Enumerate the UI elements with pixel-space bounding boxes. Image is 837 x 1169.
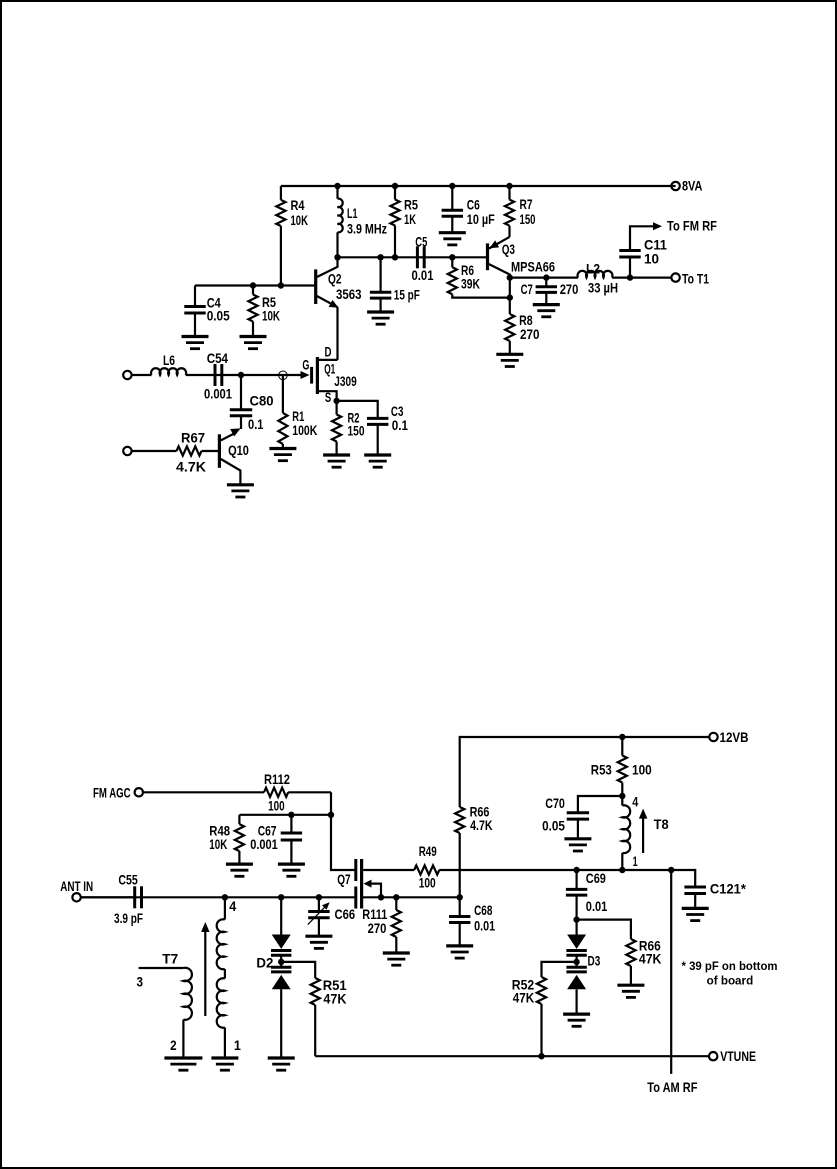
svg-text:100: 100 xyxy=(632,762,652,778)
junction node-L1 xyxy=(334,254,340,260)
junction drain-C69 xyxy=(573,867,579,873)
junction ant-C66 xyxy=(316,894,322,900)
svg-text:T7: T7 xyxy=(162,951,178,967)
junction ant-T7 xyxy=(222,894,228,900)
junction rail-L1 xyxy=(334,183,340,189)
svg-text:1: 1 xyxy=(633,853,638,869)
svg-text:C68: C68 xyxy=(474,902,492,918)
svg-text:10K: 10K xyxy=(209,836,227,852)
svg-text:L6: L6 xyxy=(163,352,175,368)
svg-text:Q7: Q7 xyxy=(337,871,351,887)
junction rail-R5 xyxy=(392,183,398,189)
svg-text:G: G xyxy=(302,357,309,373)
junction source-R111 xyxy=(393,894,399,900)
ground C3 xyxy=(364,455,391,467)
junction drain-AMRF xyxy=(668,867,674,873)
svg-text:33 µH: 33 µH xyxy=(588,280,618,296)
wire R1 drop xyxy=(282,375,284,413)
svg-text:4.7K: 4.7K xyxy=(176,459,206,475)
svg-text:R4: R4 xyxy=(291,197,305,213)
wire collector to R8 node xyxy=(509,278,511,298)
net label ANT IN xyxy=(60,878,93,894)
svg-text:L1: L1 xyxy=(347,205,358,221)
junction gate-C80 xyxy=(238,372,244,378)
junction VTUNE-R52 xyxy=(538,1053,544,1059)
resistor R112 xyxy=(143,771,331,814)
junction output-C7 xyxy=(543,274,549,280)
wire D3 to ground xyxy=(575,989,577,1014)
transformer T8 winding xyxy=(622,794,638,870)
svg-text:8VA: 8VA xyxy=(682,178,702,194)
ground C121 xyxy=(682,908,709,920)
wire gate2 bias line xyxy=(239,814,331,816)
transformer T7 core arrow xyxy=(162,922,209,1016)
junction base-R6 xyxy=(449,254,455,260)
terminal RF input xyxy=(123,371,131,379)
svg-text:* 39 pF on bottom: * 39 pF on bottom xyxy=(682,959,778,973)
svg-text:150: 150 xyxy=(520,211,536,227)
resistor R5 (1K) xyxy=(390,186,418,257)
capacitor C6 xyxy=(442,186,496,233)
net label 12VB xyxy=(720,729,749,745)
resistor R2 xyxy=(332,401,365,455)
svg-text:15 pF: 15 pF xyxy=(394,287,420,303)
svg-text:C54: C54 xyxy=(207,350,228,366)
ground R1 xyxy=(269,449,296,461)
ground R66 xyxy=(617,985,644,997)
svg-text:3.9 pF: 3.9 pF xyxy=(114,910,143,926)
svg-text:C55: C55 xyxy=(118,871,138,887)
wire Q2 base line xyxy=(195,284,316,286)
junction base-R4 xyxy=(278,282,284,288)
wire antenna line xyxy=(142,896,356,898)
svg-text:10K: 10K xyxy=(262,308,280,324)
capacitor C3 xyxy=(337,401,409,455)
ground C66 xyxy=(305,936,332,948)
wire drain line xyxy=(460,869,672,871)
ground R8 xyxy=(496,354,523,366)
svg-text:270: 270 xyxy=(368,920,387,936)
svg-text:ANT IN: ANT IN xyxy=(60,878,93,894)
svg-text:T8: T8 xyxy=(654,816,669,832)
wire To AM RF xyxy=(670,870,672,1074)
net label To AM RF xyxy=(647,1079,698,1095)
ground C4 xyxy=(182,337,209,349)
wire Q2-emitter to Q1-drain xyxy=(336,307,338,360)
power rail 12VB xyxy=(460,737,710,807)
svg-text:0.1: 0.1 xyxy=(392,417,408,433)
svg-text:To FM RF: To FM RF xyxy=(667,218,717,234)
wire D3 node to R66 xyxy=(577,920,631,939)
svg-text:To AM RF: To AM RF xyxy=(647,1079,698,1095)
svg-text:R112: R112 xyxy=(264,771,290,787)
capacitor C80 xyxy=(230,375,274,432)
varactor D2 xyxy=(256,935,291,990)
transformer T8 core arrow xyxy=(639,809,669,853)
junction rail-C6 xyxy=(449,183,455,189)
svg-text:3563: 3563 xyxy=(336,286,362,302)
junction R53-T8-C70 xyxy=(619,793,625,799)
terminal 12VB xyxy=(709,733,717,741)
svg-text:0.001: 0.001 xyxy=(250,836,278,852)
ground R5 xyxy=(240,337,267,349)
svg-text:C80: C80 xyxy=(250,393,274,409)
inductor L1 xyxy=(338,186,388,257)
svg-text:R53: R53 xyxy=(591,762,612,778)
junction base-R5 xyxy=(250,282,256,288)
svg-text:FM AGC: FM AGC xyxy=(93,784,131,800)
ground C7 xyxy=(533,305,560,317)
capacitor C66 (trimmer) xyxy=(308,897,355,936)
svg-text:Q3: Q3 xyxy=(502,241,515,257)
svg-text:10: 10 xyxy=(644,251,659,267)
wire C5 to Q3 base xyxy=(424,256,486,258)
junction node-15pF xyxy=(377,254,383,260)
junction C67 top xyxy=(288,812,294,818)
junction drain-T8 xyxy=(619,867,625,873)
svg-text:J309: J309 xyxy=(334,373,357,389)
resistor R1 xyxy=(278,408,317,449)
junction R6-R8 xyxy=(507,294,513,300)
svg-text:C70: C70 xyxy=(545,795,565,811)
capacitor C7 xyxy=(521,278,579,305)
ground C6 xyxy=(439,233,466,245)
transformer T7 secondary xyxy=(217,897,241,1058)
svg-text:0.01: 0.01 xyxy=(412,267,434,283)
arrow To FM RF xyxy=(653,222,662,230)
junction Q7 substrate-source xyxy=(378,894,384,900)
svg-text:of board: of board xyxy=(707,974,754,988)
svg-text:270: 270 xyxy=(520,326,540,342)
junction rail-R7 xyxy=(506,183,512,189)
svg-text:C66: C66 xyxy=(335,906,356,922)
svg-text:D: D xyxy=(325,344,332,360)
junction rail-R53 xyxy=(619,734,625,740)
svg-text:0.001: 0.001 xyxy=(204,386,232,402)
ground T7 pin2 xyxy=(164,1058,202,1070)
resistor R48 xyxy=(209,815,244,864)
transistor Q3 xyxy=(488,237,556,278)
junction Q3 collector xyxy=(507,274,513,280)
junction gate2-C67 line xyxy=(328,812,334,818)
varactor D3 xyxy=(566,935,600,990)
net label To FM RF xyxy=(667,218,717,234)
capacitor C5 xyxy=(412,234,434,284)
terminal VTUNE xyxy=(709,1052,717,1060)
svg-text:1K: 1K xyxy=(404,211,416,227)
node test point xyxy=(279,371,288,380)
junction C68 top xyxy=(457,894,463,900)
svg-text:0.1: 0.1 xyxy=(248,416,264,432)
svg-text:R7: R7 xyxy=(520,196,533,212)
capacitor C55 xyxy=(81,871,144,926)
net label VTUNE xyxy=(720,1048,756,1064)
svg-text:2: 2 xyxy=(170,1037,177,1053)
inductor L2 xyxy=(578,261,672,296)
svg-text:3.9 MHz: 3.9 MHz xyxy=(347,221,387,237)
junction Q1 source xyxy=(333,398,339,404)
svg-text:0.05: 0.05 xyxy=(207,308,230,324)
net label FM AGC xyxy=(93,784,131,800)
svg-text:D3: D3 xyxy=(588,953,601,969)
capacitor C121 xyxy=(671,870,746,908)
svg-text:0.01: 0.01 xyxy=(474,918,495,934)
svg-text:0.01: 0.01 xyxy=(586,898,608,914)
svg-text:0.05: 0.05 xyxy=(542,818,565,834)
capacitor C68 xyxy=(449,897,495,946)
capacitor C67 xyxy=(250,815,302,864)
svg-text:100K: 100K xyxy=(292,422,317,438)
terminal FM AGC xyxy=(135,788,143,796)
svg-text:Q2: Q2 xyxy=(328,271,342,287)
terminal ANT IN xyxy=(72,893,80,901)
resistor R7 xyxy=(505,186,536,237)
wire collector node line xyxy=(338,256,418,258)
svg-text:4: 4 xyxy=(229,898,236,914)
capacitor C4 xyxy=(184,286,230,337)
svg-text:10K: 10K xyxy=(291,212,309,228)
svg-text:10 µF: 10 µF xyxy=(467,211,495,227)
resistor R4 xyxy=(276,186,308,286)
wire D2 to ground xyxy=(280,989,282,1058)
capacitor C69 xyxy=(566,870,608,920)
svg-text:D2: D2 xyxy=(256,955,273,971)
capacitor C54 xyxy=(204,350,232,402)
resistor R8 xyxy=(505,298,539,355)
terminal To T1 xyxy=(671,273,679,281)
svg-text:4.7K: 4.7K xyxy=(470,817,492,833)
svg-text:150: 150 xyxy=(348,423,365,439)
junction ant-D2 xyxy=(278,894,284,900)
svg-text:VTUNE: VTUNE xyxy=(720,1048,756,1064)
svg-text:L2: L2 xyxy=(586,261,600,277)
ground R111 xyxy=(383,953,410,965)
svg-text:12VB: 12VB xyxy=(720,729,749,745)
junction D3 center xyxy=(573,959,579,965)
ground R2 xyxy=(323,455,350,467)
svg-text:C5: C5 xyxy=(415,234,427,250)
mosfet Q7 xyxy=(337,859,381,909)
resistor R111 xyxy=(362,897,401,953)
inductor L6 xyxy=(132,352,215,375)
power rail 8VA xyxy=(281,185,676,187)
svg-text:C69: C69 xyxy=(586,870,606,886)
capacitor C11 xyxy=(619,226,667,277)
resistor R67 xyxy=(132,430,219,475)
resistor R66 (4.7K) xyxy=(455,804,492,898)
wire C54 to Q1 gate xyxy=(222,374,301,376)
terminal 8VA xyxy=(671,182,679,190)
ground D2 xyxy=(268,1058,295,1070)
ground C70 xyxy=(564,839,591,851)
svg-text:C7: C7 xyxy=(521,281,533,297)
svg-text:R67: R67 xyxy=(181,430,205,446)
junction node-R5 xyxy=(392,254,398,260)
wire D3 drop xyxy=(575,920,577,935)
resistor R5 (10K) xyxy=(248,286,280,337)
ground C68 xyxy=(446,946,473,958)
junction C69-D3 xyxy=(573,916,579,922)
svg-text:270: 270 xyxy=(560,281,579,297)
resistor R6 xyxy=(448,257,510,297)
svg-text:47K: 47K xyxy=(323,991,346,1007)
svg-text:100: 100 xyxy=(419,875,436,891)
transistor Q10 xyxy=(219,428,249,484)
svg-text:Q10: Q10 xyxy=(228,442,249,458)
ground C67 xyxy=(278,864,305,876)
wire D2 drop xyxy=(280,897,282,934)
resistor R51 xyxy=(281,962,347,1056)
capacitor C70 xyxy=(542,795,622,839)
svg-text:47K: 47K xyxy=(639,951,662,967)
junction D2 center xyxy=(278,959,284,965)
jfet Q1 xyxy=(301,344,357,406)
svg-text:100: 100 xyxy=(268,798,285,814)
resistor R49 xyxy=(363,843,460,891)
svg-text:C121*: C121* xyxy=(710,881,747,897)
svg-text:3: 3 xyxy=(137,974,144,990)
svg-text:To T1: To T1 xyxy=(682,271,709,287)
net label 8VA xyxy=(682,178,702,194)
junction output-C11 xyxy=(627,274,633,280)
svg-text:R49: R49 xyxy=(419,843,437,859)
wire Q3 output line xyxy=(510,277,578,279)
wire R112 to Q7 gate2 xyxy=(331,792,355,870)
svg-text:4: 4 xyxy=(632,794,638,810)
note 39pF xyxy=(682,959,778,988)
transistor Q2 xyxy=(316,257,362,307)
svg-text:47K: 47K xyxy=(513,990,534,1006)
svg-text:39K: 39K xyxy=(461,276,480,292)
wire Q7 source line xyxy=(363,896,460,898)
resistor R52 xyxy=(512,962,577,1056)
transformer T7 primary xyxy=(137,968,192,1058)
ground Q10 xyxy=(227,485,254,497)
svg-text:1: 1 xyxy=(234,1037,241,1053)
resistor R66 (47K) xyxy=(626,938,661,986)
ground R48 xyxy=(226,864,253,876)
svg-text:S: S xyxy=(325,389,331,405)
ground D3 xyxy=(563,1014,590,1026)
ground T7 pin1 xyxy=(211,1058,238,1070)
terminal AGC input xyxy=(123,447,131,455)
resistor R53 xyxy=(591,737,652,796)
net label To T1 xyxy=(682,271,709,287)
svg-text:MPSA66: MPSA66 xyxy=(511,259,555,275)
capacitor 15 pF xyxy=(370,257,420,312)
ground 15pF xyxy=(367,312,394,324)
wire VTUNE line xyxy=(315,1055,709,1057)
